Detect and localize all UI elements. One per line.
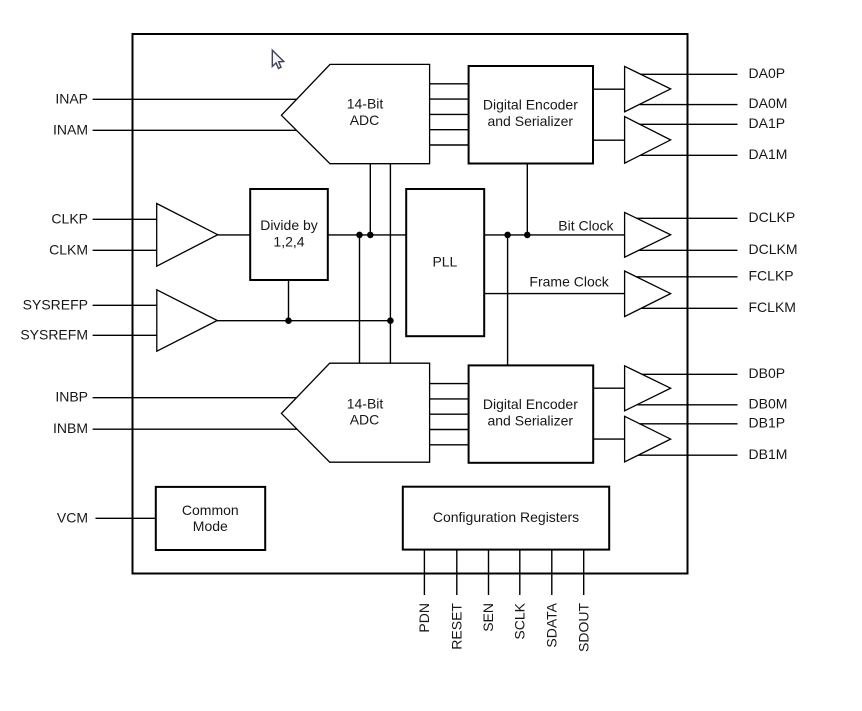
- wire PDN pin: [423, 550, 425, 595]
- LVDS buffer DB0: [625, 366, 671, 411]
- wire SEN pin: [488, 550, 490, 595]
- svg-text:INBM: INBM: [53, 420, 88, 436]
- svg-text:1,2,4: 1,2,4: [273, 234, 304, 250]
- wire SYSREFM: [93, 334, 157, 336]
- ADC A label: [347, 95, 384, 128]
- svg-text:Common: Common: [182, 502, 239, 518]
- pin label SEN: [480, 603, 496, 632]
- svg-text:Frame Clock: Frame Clock: [529, 274, 609, 290]
- svg-text:ADC: ADC: [350, 112, 380, 128]
- wire INBP: [93, 397, 297, 399]
- LVDS buffer DB1: [625, 416, 671, 462]
- junction dot divider/SYSREF: [285, 317, 292, 324]
- svg-text:RESET: RESET: [448, 603, 464, 650]
- wire CLKM: [93, 249, 157, 251]
- divider label: [260, 217, 318, 250]
- svg-text:and Serializer: and Serializer: [487, 113, 573, 129]
- configuration registers block: [403, 487, 609, 550]
- wire PLL bit clock output: [484, 234, 624, 236]
- svg-text:DB0M: DB0M: [749, 395, 788, 411]
- junction dot bit clock to encoder B: [504, 232, 511, 239]
- net label Frame Clock: [529, 274, 609, 290]
- svg-text:DB1P: DB1P: [749, 414, 786, 430]
- svg-text:Digital Encoder: Digital Encoder: [483, 396, 578, 412]
- wire SYSREF buffer output: [217, 320, 390, 322]
- wire clock up to ADC A: [369, 164, 371, 235]
- wire divider bottom to SYSREF net: [288, 280, 290, 321]
- wire encoder A to DA0 buffer: [593, 88, 625, 90]
- configuration registers label: [433, 509, 579, 525]
- svg-text:DA1P: DA1P: [749, 115, 786, 131]
- svg-text:14-Bit: 14-Bit: [347, 95, 384, 111]
- mouse cursor: [272, 50, 284, 68]
- svg-text:Mode: Mode: [193, 518, 228, 534]
- svg-text:SDOUT: SDOUT: [575, 603, 591, 652]
- PLL label: [432, 254, 457, 270]
- svg-text:FCLKP: FCLKP: [749, 268, 794, 284]
- digital encoder B (bottom) block: [469, 365, 594, 462]
- svg-text:INBP: INBP: [55, 389, 88, 405]
- wire divider output to PLL: [328, 234, 406, 236]
- wire INAM: [93, 129, 297, 131]
- wire DCLKP: [636, 217, 737, 219]
- LVDS buffer DA0: [625, 66, 671, 111]
- chip outer border: [133, 34, 688, 574]
- net label Bit Clock: [558, 217, 614, 233]
- svg-text:INAM: INAM: [53, 121, 88, 137]
- wire bit clock down to encoder B: [507, 235, 509, 366]
- svg-text:14-Bit: 14-Bit: [347, 395, 384, 411]
- svg-text:VCM: VCM: [57, 509, 88, 525]
- wire clock buffer to divider: [218, 234, 251, 236]
- bus A wires (ADC A to encoder A, 5 lines): [430, 84, 469, 145]
- svg-text:FCLKM: FCLKM: [749, 299, 796, 315]
- wire DCLKM: [639, 249, 737, 251]
- LVDS buffer DCLK: [625, 212, 671, 257]
- svg-text:PLL: PLL: [432, 254, 457, 270]
- pin label SCLK: [511, 602, 527, 639]
- wire DB0M: [637, 404, 737, 406]
- wire INAP: [93, 98, 297, 100]
- LVDS buffer DA1: [625, 117, 671, 164]
- wire CLKP: [93, 218, 157, 220]
- wire SDOUT pin: [583, 550, 585, 595]
- junction dot on divider output (to ADC A clock): [367, 232, 374, 239]
- pin label SDATA: [543, 602, 559, 647]
- junction dot on divider output (to ADC B clock): [356, 232, 363, 239]
- svg-text:PDN: PDN: [416, 603, 432, 633]
- wire DA1M: [641, 154, 738, 156]
- pin labels CLKP CLKM: [49, 210, 88, 257]
- ADC B (bottom) 14-Bit ADC pentagon U2: [281, 363, 429, 462]
- wire SDATA pin: [551, 550, 553, 595]
- svg-text:DA0P: DA0P: [749, 65, 786, 81]
- wire DA0M: [640, 104, 738, 106]
- pin labels INBP INBM: [53, 389, 88, 437]
- SYSREF input buffer: [157, 290, 218, 351]
- wire FCLKM: [642, 307, 738, 309]
- ADC A (top) 14-Bit ADC pentagon U1: [281, 64, 429, 163]
- pin labels SYSREFP SYSREFM: [20, 296, 88, 342]
- svg-text:CLKP: CLKP: [51, 210, 88, 226]
- svg-text:SYSREFM: SYSREFM: [20, 326, 88, 342]
- wire PLL frame clock output: [484, 293, 624, 295]
- wire DA0P: [640, 73, 737, 75]
- svg-text:SEN: SEN: [480, 603, 496, 632]
- svg-text:and Serializer: and Serializer: [487, 413, 573, 429]
- wire DB1M: [639, 454, 738, 456]
- common mode block: [156, 487, 265, 550]
- svg-text:CLKM: CLKM: [49, 241, 88, 257]
- wire SCLK pin: [519, 550, 521, 595]
- junction dot bit clock to encoder A: [524, 232, 531, 239]
- svg-text:DA0M: DA0M: [749, 95, 788, 111]
- svg-text:Bit Clock: Bit Clock: [558, 217, 614, 233]
- svg-text:DB0P: DB0P: [749, 365, 786, 381]
- wire SYSREFP: [93, 304, 157, 306]
- wire FCLKP: [636, 276, 738, 278]
- junction dot SYSREF vertical: [387, 317, 394, 324]
- bus B wires (ADC B to encoder B, 5 lines): [430, 384, 469, 445]
- digital encoder B label: [483, 396, 578, 429]
- pin labels DCLKP DCLKM FCLKP FCLKM: [749, 209, 798, 315]
- wire bit clock up to encoder A: [526, 164, 528, 235]
- svg-text:Divide by: Divide by: [260, 217, 318, 233]
- pin label VCM: [57, 509, 88, 525]
- svg-text:DA1M: DA1M: [749, 146, 788, 162]
- digital encoder A label: [483, 96, 578, 128]
- svg-text:Configuration Registers: Configuration Registers: [433, 509, 579, 525]
- digital encoder A (top) block: [469, 66, 593, 164]
- pin labels DA0P DA0M DA1P DA1M: [749, 65, 788, 162]
- svg-text:DCLKM: DCLKM: [749, 241, 798, 257]
- PLL block: [406, 189, 484, 336]
- wire encoder B to DB0 buffer: [593, 387, 624, 389]
- pin labels DB0P DB0M DB1P DB1M: [749, 365, 788, 462]
- svg-text:ADC: ADC: [350, 412, 380, 428]
- wire clock down to ADC B: [359, 235, 361, 363]
- divider block: Divide by 1,2,4: [250, 189, 328, 280]
- wire encoder A to DA1 buffer: [593, 139, 625, 141]
- svg-text:DB1M: DB1M: [749, 446, 788, 462]
- wire SYSREF net between ADC A and ADC B: [389, 164, 391, 364]
- wire INBM: [93, 428, 297, 430]
- pin label RESET: [448, 603, 464, 650]
- wire encoder B to DB1 buffer: [593, 438, 624, 440]
- svg-text:DCLKP: DCLKP: [749, 209, 796, 225]
- LVDS buffer FCLK: [625, 271, 671, 317]
- svg-text:INAP: INAP: [55, 90, 88, 106]
- wire RESET pin: [456, 550, 458, 595]
- pin labels INAP INAM: [53, 90, 88, 137]
- common mode label: [182, 502, 239, 534]
- wire VCM: [96, 517, 156, 519]
- wire DB1P: [639, 423, 737, 425]
- svg-text:SDATA: SDATA: [543, 602, 559, 647]
- svg-text:SCLK: SCLK: [511, 602, 527, 639]
- svg-text:SYSREFP: SYSREFP: [23, 296, 88, 312]
- wire DB0P: [641, 373, 737, 375]
- pin label PDN: [416, 603, 432, 633]
- ADC B label: [347, 395, 384, 427]
- pin label SDOUT: [575, 603, 591, 652]
- svg-text:Digital Encoder: Digital Encoder: [483, 96, 578, 112]
- clock input buffer: [157, 204, 218, 267]
- wire DA1P: [639, 123, 737, 125]
